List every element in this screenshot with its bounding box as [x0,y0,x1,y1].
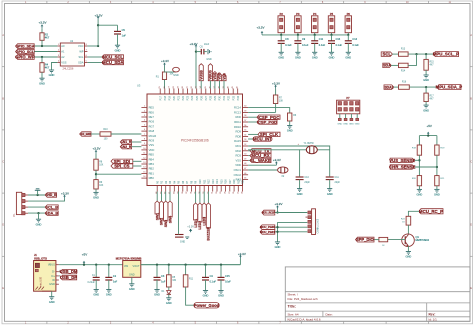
U3 bottom pins [156,186,158,192]
svg-text:+3.3V: +3.3V [272,81,280,85]
svg-text:42: 42 [237,86,239,88]
svg-text:P26: P26 [200,95,203,100]
wire q6 [248,138,253,140]
svg-text:GND: GND [297,192,303,196]
svg-text:47: 47 [244,168,246,170]
crystal Y1 [300,149,307,151]
ground [39,77,44,79]
svg-text:USB_DM: USB_DM [60,269,78,274]
junction [220,264,222,266]
resistor R5 (LED series) [167,275,172,287]
J1 pin D+ [56,275,59,277]
svg-text:26: 26 [164,86,166,88]
capacitor C6 (horizontal) [200,49,202,55]
power +3.3V (output) [239,256,241,259]
svg-text:+3.3V: +3.3V [93,147,101,151]
svg-text:Title:: Title: [288,305,297,309]
svg-text:MCU_SCL: MCU_SCL [102,55,123,60]
wire divider tap to pin [96,173,141,175]
capacitor C15 [220,265,222,278]
svg-text:0.1uF: 0.1uF [285,44,292,47]
wire [132,146,142,148]
global label CHR_SENSE [390,165,414,169]
svg-text:C: C [2,161,4,164]
U3 right pins [243,107,249,109]
svg-text:8: 8 [144,139,145,141]
wire [200,81,202,89]
junction [95,173,97,175]
wire to test point [165,71,177,73]
svg-text:38: 38 [182,192,184,194]
svg-text:VBUS: VBUS [48,263,55,267]
svg-text:R14: R14 [216,179,219,184]
junction [184,264,186,266]
wire emitter [407,246,409,252]
svg-text:RB0: RB0 [149,176,155,180]
wire [418,186,420,190]
ground [106,289,111,291]
resistor R1 (MCLR pull-up) [162,72,166,80]
wire base [388,239,406,241]
junction [156,264,158,266]
resistor R21 [435,176,439,186]
resistor R4 [40,63,44,72]
global label VUS_SENSE [390,158,414,162]
power +3.3V [64,196,66,199]
svg-text:GND: GND [93,196,99,200]
svg-text:GPIO_WP: GPIO_WP [15,55,35,60]
svg-text:VSS: VSS [236,158,242,162]
junction [36,194,38,196]
wire [436,186,438,190]
wire P8 pin3 to ground [278,223,308,242]
capacitor C7 (VCAP) [175,234,184,236]
svg-text:C11: C11 [335,176,340,179]
svg-text:+5V: +5V [426,124,431,128]
junction [97,45,99,47]
ground [166,297,171,299]
svg-text:4K7: 4K7 [45,66,50,69]
svg-text:52: 52 [244,144,246,146]
junction [108,264,110,266]
global label CN2_R [120,145,131,149]
svg-text:P5: P5 [330,12,334,16]
global label MPU_SCL_P [433,52,458,57]
global label SW4 (vertical) [168,201,172,217]
svg-text:Rev:: Rev: [429,312,436,316]
svg-text:MMBT3904: MMBT3904 [416,238,430,242]
svg-text:C14: C14 [352,38,357,41]
wire [41,40,43,46]
capacitor C1 [95,265,97,278]
capacitor C11 [326,176,334,178]
global label SPI_SDI [111,159,133,163]
svg-text:GND: GND [180,241,186,244]
svg-text:VDD: VDD [235,163,241,167]
resistor R20 [417,176,421,186]
capacitor C9 [297,35,299,41]
svg-text:P18: P18 [164,95,167,100]
svg-text:+3.3V: +3.3V [95,13,103,17]
svg-text:GND: GND [218,294,224,298]
svg-text:GND: GND [329,56,335,60]
svg-text:GND: GND [115,48,121,52]
svg-text:SHD_B: SHD_B [45,193,57,197]
wire q2 [248,116,257,118]
svg-text:MCLR: MCLR [149,134,157,138]
svg-text:P34: P34 [237,95,240,100]
junction [347,34,349,36]
svg-text:P31: P31 [223,95,226,100]
svg-text:26: 26 [233,192,235,194]
svg-text:5: 5 [144,124,145,126]
power +3.3V [97,17,99,20]
svg-text:58: 58 [244,115,246,117]
svg-text:31: 31 [187,86,189,88]
wire [299,180,301,189]
svg-text:R15: R15 [220,179,223,184]
wire U2 VSS to ground [52,63,58,71]
ground [49,296,54,298]
svg-text:GND: GND [417,193,423,197]
svg-text:CONN_01X05: CONN_01X05 [318,218,320,233]
wire VUS_SENSE [414,159,419,161]
junction [436,166,438,168]
wire [392,53,398,55]
svg-text:RD0: RD0 [236,115,242,119]
svg-text:D-: D- [52,270,55,274]
global label GPIO_SCL [16,49,35,54]
svg-text:R18: R18 [233,179,236,184]
ground [346,51,351,53]
wire P8 pin2 stub [306,216,308,218]
wire q0 long (MCLR pulldown) [248,108,290,113]
svg-text:SL_WAKE: SL_WAKE [250,158,271,163]
svg-text:0.22uF: 0.22uF [87,281,95,284]
svg-text:GND: GND [343,124,348,126]
junction [425,86,427,88]
wire [394,86,399,88]
connector J1 USB mini [34,261,56,292]
wire to C5 [98,24,117,26]
capacitor C2 [108,265,110,278]
wire VBUS to rail [59,264,241,266]
svg-text:GND: GND [312,56,318,60]
svg-text:28: 28 [173,86,175,88]
power +3.3V (P8) [277,207,279,210]
svg-text:P22: P22 [182,95,185,100]
svg-text:A1: A1 [61,50,65,54]
wire [391,64,398,66]
wire to Power_Good [186,287,194,305]
capacitor C3 [156,265,158,278]
connector P6 (2-pin jumper) [345,16,351,33]
connector P8 (5-pin) [312,209,316,235]
ground [203,290,208,292]
global label VUSB (vertical, top) [199,64,203,81]
svg-text:40: 40 [173,192,175,194]
svg-text:P23: P23 [187,95,190,100]
svg-text:GND: GND [327,192,333,196]
svg-text:VSS: VSS [213,72,217,80]
svg-text:37: 37 [186,192,188,194]
wire OSC2 to right node [248,146,330,176]
svg-text:Y1 8MHz: Y1 8MHz [304,142,315,145]
wire rail out [141,264,241,266]
wire U2 SCL to label [87,56,102,58]
wire collector [407,225,409,234]
junction [41,45,43,47]
wire [275,104,277,113]
wires bottom cluster B [195,192,197,204]
wire [329,180,331,189]
ground [218,290,223,292]
wire bottom pin stubs to labels group A [156,192,158,202]
global label SDA_B [45,211,58,215]
wire ground (VSS bottom) [178,192,180,234]
wire shield to ground [51,291,53,297]
wire U2 VCC to +3.3V rail [87,45,98,47]
wire [41,57,43,63]
svg-text:R15: R15 [430,62,435,64]
wire rail [419,135,437,137]
wire [219,81,221,89]
svg-text:mini_USB: mini_USB [41,276,43,287]
svg-text:50: 50 [244,154,246,156]
svg-text:MCU_RC_P: MCU_RC_P [419,209,443,214]
ground [287,125,292,127]
wire [41,28,43,33]
svg-text:28: 28 [225,192,227,194]
ground [93,191,98,193]
svg-text:RD9: RD9 [236,130,242,134]
svg-text:RD2: RD2 [236,149,242,153]
svg-text:Power_Good: Power_Good [194,303,220,308]
global label SL_WAKE [250,158,271,162]
svg-text:+3.3V: +3.3V [275,202,283,206]
global label MCU_TX [250,149,271,153]
power +3.3V [275,163,277,166]
svg-text:+3.3V: +3.3V [238,252,246,256]
wire [185,265,187,275]
svg-text:56: 56 [244,125,246,127]
svg-text:GND: GND [345,56,351,60]
global label MCU_SDA [102,60,124,64]
svg-text:4: 4 [144,120,145,122]
test point TP1 (MCLR) [173,67,180,72]
power +5V [83,262,85,265]
svg-text:C15: C15 [225,275,230,278]
svg-text:25: 25 [237,192,239,194]
wire net GPIO_SCL [34,51,57,53]
svg-text:KiCad E.D.A. kicad 4.0.6: KiCad E.D.A. kicad 4.0.6 [288,318,321,322]
svg-text:3: 3 [144,115,145,117]
wire q12 to +3.3V [248,164,276,166]
svg-text:Size: A4: Size: A4 [288,312,299,316]
wire [347,33,349,35]
svg-text:RC14: RC14 [234,106,241,110]
wire [425,70,427,75]
svg-text:P17: P17 [159,95,162,100]
wire U1 gnd [131,277,133,284]
svg-text:16: 16 [143,176,145,178]
svg-text:31: 31 [212,192,214,194]
wire header pin [356,114,358,119]
svg-text:22pF: 22pF [304,181,310,184]
wire right branch [436,136,438,145]
junction [276,231,278,233]
global label CN1_R [120,140,131,144]
svg-text:VOUT: VOUT [133,265,140,268]
svg-text:P27: P27 [205,95,208,100]
svg-text:SDA_B: SDA_B [45,212,58,216]
global label SPP_DIO [356,237,375,242]
svg-text:45: 45 [244,178,246,180]
svg-text:SDA2: SDA2 [384,85,393,89]
svg-text:RD8: RD8 [236,134,242,138]
svg-text:RE7: RE7 [149,115,155,119]
svg-text:VUSB: VUSB [200,70,204,80]
svg-text:RA15: RA15 [234,139,241,143]
power +3.3V (divider) [95,151,97,154]
global label Power_Good (rounded) [194,303,219,308]
svg-text:GND: GND [106,293,112,297]
svg-text:25: 25 [159,86,161,88]
svg-text:GND: GND [166,301,172,305]
svg-text:29: 29 [177,86,179,88]
svg-text:0.1uF: 0.1uF [336,44,343,47]
svg-text:SW4: SW4 [168,216,172,223]
global label LED2 (vertical) [198,203,202,222]
power +3.3V (VDD feed) [195,46,197,49]
transistor Q1 MMBT3904 [402,234,415,247]
crystal X2 32kHz (oval) [278,167,288,173]
global label VBUS (vertical, top) [208,64,212,81]
ground [417,188,422,190]
wire header pin [339,114,341,119]
svg-text:OSC2: OSC2 [234,173,242,177]
svg-text:Sheet: /: Sheet: / [288,293,299,297]
svg-text:GND: GND [49,300,55,304]
svg-text:0.1uF: 0.1uF [319,44,326,47]
svg-text:0.1uF: 0.1uF [302,44,309,47]
wire [425,102,427,106]
svg-text:VIN: VIN [124,265,128,268]
svg-text:49: 49 [244,158,246,160]
svg-text:13: 13 [143,162,145,164]
svg-text:VUS_SENSE: VUS_SENSE [389,158,415,163]
svg-text:53: 53 [244,139,246,141]
svg-text:30: 30 [182,86,184,88]
power +3.3V (decoupling rail) [261,32,263,35]
svg-text:54: 54 [244,134,246,136]
svg-text:27: 27 [168,86,170,88]
resistor R11 (power good) [183,275,188,287]
svg-text:P2: P2 [280,12,284,16]
svg-text:D: D [470,224,472,227]
svg-text:LED3: LED3 [202,217,206,226]
svg-text:RG7: RG7 [149,124,155,128]
wire [95,154,97,159]
wire P8 pin4 [275,226,308,228]
svg-text:C11: C11 [319,38,324,41]
svg-text:R19: R19 [237,179,240,184]
svg-text:46: 46 [244,173,246,175]
wire [133,160,142,162]
wire pin4 [28,212,45,214]
global label SDA2 [384,85,394,89]
svg-text:RD11: RD11 [234,120,241,124]
ground [275,241,280,243]
wire [95,189,97,192]
wire P8 pin1 [275,212,308,214]
capacitor C11 [314,35,316,41]
svg-text:GND: GND [423,108,429,112]
svg-text:MCU_SDA: MCU_SDA [102,60,123,65]
wire header pin [345,114,347,119]
svg-text:GND: GND [154,293,160,297]
regulator U1 MCP1703 [123,261,141,278]
U2 right pins [85,45,88,47]
wire [297,33,299,35]
svg-text:RB4: RB4 [149,157,155,161]
svg-text:GND: GND [129,274,135,277]
junction [168,264,170,266]
wire [331,33,333,35]
svg-text:VSS: VSS [61,61,66,65]
wire net GPIO_SDA [34,45,57,47]
capacitor C4 [205,265,207,278]
ground [406,251,411,253]
wire P8 pin5 [275,231,308,233]
ground [329,51,334,53]
svg-text:MCP1703A-3302/MB: MCP1703A-3302/MB [116,257,142,261]
wire U2 SDA to label [87,62,102,64]
J1 inner shield mark [35,263,39,267]
wire MCLR [164,80,166,89]
svg-text:ID: ID [52,278,55,282]
wire [164,67,166,73]
svg-text:VSS: VSS [149,143,155,147]
svg-text:SPI_CS: SPI_CS [114,164,129,169]
resistor R14 [399,63,409,67]
svg-text:30: 30 [216,192,218,194]
svg-text:MCU_INT: MCU_INT [253,137,272,142]
svg-text:35: 35 [205,86,207,88]
global label ICSP_PGC [257,115,280,119]
svg-text:RB2: RB2 [149,167,155,171]
svg-text:Date:: Date: [326,312,333,316]
capacitor C10 [296,176,304,178]
svg-text:ICSP_PGD: ICSP_PGD [257,119,277,124]
svg-text:R17: R17 [430,95,435,97]
wire [277,209,279,212]
junction [83,264,85,266]
svg-text:10: 10 [143,148,145,150]
svg-text:10K: 10K [279,100,284,102]
svg-text:P33: P33 [232,95,235,100]
svg-text:0.1uF: 0.1uF [352,44,359,47]
svg-text:VCC: VCC [78,44,84,48]
svg-text:MPU_SCL_P: MPU_SCL_P [433,52,459,57]
svg-text:R17: R17 [229,179,232,184]
svg-text:4K7: 4K7 [45,36,50,39]
wire [408,54,416,65]
wire [111,133,141,135]
svg-text:WP: WP [79,50,83,54]
wire VDD vertical [195,48,197,88]
global label VSS (vertical, top) [222,74,226,81]
